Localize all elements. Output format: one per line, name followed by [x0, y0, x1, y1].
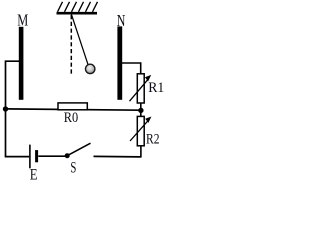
- vertical reference dashed line: [70, 15, 72, 76]
- wire R2 down to bottom rail: [140, 146, 142, 158]
- wire battery to switch: [38, 155, 67, 157]
- ceiling hatching: [58, 2, 98, 12]
- resistor R0: [58, 103, 87, 110]
- svg-text:R0: R0: [64, 110, 78, 126]
- wire R1 to R2: [140, 103, 142, 116]
- switch S: [65, 143, 91, 158]
- wire from plate N to R1: [122, 63, 141, 74]
- svg-text:R2: R2: [146, 132, 160, 148]
- bottom wire left segment: [5, 156, 30, 158]
- wire from plate M to left rail: [6, 61, 20, 157]
- wire switch to right rail: [94, 155, 141, 158]
- rheostat R2: [130, 116, 151, 145]
- svg-text:R1: R1: [148, 80, 164, 96]
- pendulum ball: [86, 64, 95, 73]
- middle wire: [6, 109, 141, 110]
- svg-text:E: E: [30, 167, 38, 181]
- plate N: [117, 26, 122, 99]
- ceiling bar: [57, 12, 98, 15]
- battery E: [30, 145, 37, 169]
- node junction left: [3, 106, 8, 111]
- node junction right: [138, 108, 143, 113]
- rheostat R1: [130, 74, 152, 103]
- svg-text:M: M: [17, 11, 28, 30]
- pendulum string: [71, 14, 88, 65]
- plate M: [19, 27, 24, 100]
- svg-text:S: S: [70, 160, 76, 177]
